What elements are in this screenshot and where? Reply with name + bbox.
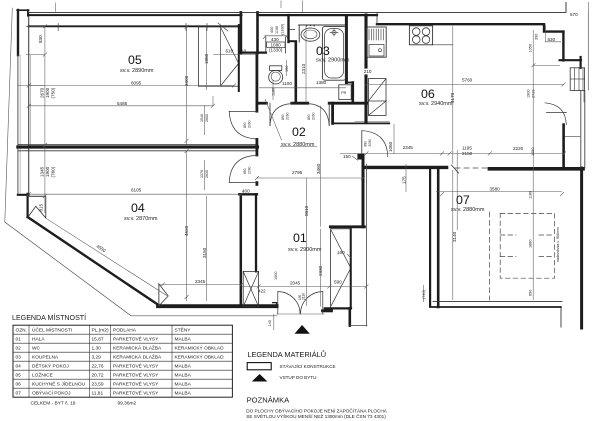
- opening lintel dashes: [455, 167, 488, 169]
- svg-text:2090: 2090: [248, 166, 252, 174]
- svg-text:05: 05: [16, 373, 22, 379]
- dim vertical x206: [204, 27, 206, 301]
- svg-text:06: 06: [16, 382, 22, 388]
- svg-text:07: 07: [456, 193, 470, 207]
- svg-text:(740): (740): [422, 289, 426, 299]
- balcony door leaf+arc: [547, 111, 567, 113]
- svg-text:1100: 1100: [275, 26, 279, 34]
- entrance triangle: [295, 325, 310, 334]
- svg-text:5810: 5810: [304, 205, 309, 216]
- svg-text:1195: 1195: [462, 146, 472, 151]
- hall west wall segments with door gaps: [255, 53, 258, 111]
- dim horizontal entry y287: [159, 285, 366, 306]
- hall/kitchen lintel: [333, 122, 390, 124]
- left bottom corner jog: [18, 194, 29, 217]
- svg-text:(1330): (1330): [269, 48, 283, 53]
- svg-text:STÁVAJÍCÍ KONSTRUKCE: STÁVAJÍCÍ KONSTRUKCE: [280, 363, 336, 369]
- bottom wall left of door: [273, 303, 277, 306]
- entry door step lines: [350, 325, 367, 327]
- svg-text:1370: 1370: [200, 170, 204, 178]
- svg-text:5485: 5485: [117, 101, 128, 106]
- right outer thin line top: [587, 11, 589, 90]
- svg-text:2150: 2150: [462, 151, 473, 156]
- svg-text:04: 04: [16, 364, 22, 370]
- kitchen door leaf+arc: [361, 131, 363, 157]
- svg-text:01: 01: [16, 337, 22, 343]
- svg-text:2345: 2345: [403, 145, 414, 150]
- svg-text:410: 410: [239, 49, 247, 54]
- svg-text:1180: 1180: [272, 88, 276, 96]
- svg-text:ÚČEL MÍSTNOSTI: ÚČEL MÍSTNOSTI: [32, 327, 72, 334]
- svg-text:1000: 1000: [274, 272, 278, 280]
- svg-text:590: 590: [334, 280, 342, 285]
- svg-text:01: 01: [293, 231, 307, 245]
- hall south jog wall: [239, 193, 257, 195]
- svg-text:175: 175: [401, 176, 406, 184]
- svg-text:160: 160: [337, 250, 345, 255]
- svg-text:nadezdívka v. 900mm: nadezdívka v. 900mm: [556, 227, 560, 262]
- shaft box with X: [243, 271, 258, 306]
- svg-text:890: 890: [307, 114, 311, 120]
- bathroom door: [328, 103, 330, 125]
- wall kitchen/room01 horizontal: [330, 225, 364, 228]
- wall hall/entry west: [240, 194, 243, 306]
- WC west niche vertical: [266, 37, 286, 53]
- top wall outer face room 05: [29, 14, 242, 16]
- left outer wall upper: [17, 10, 19, 55]
- svg-text:1050: 1050: [531, 148, 535, 156]
- svg-text:690: 690: [529, 290, 533, 296]
- dim horizontal 6105: [29, 193, 242, 195]
- svg-text:1180: 1180: [529, 191, 533, 199]
- bathroom west wall: [294, 42, 297, 103]
- svg-text:OBÝVACÍ POKOJ: OBÝVACÍ POKOJ: [32, 390, 71, 397]
- kitchen stove: [409, 26, 432, 45]
- svg-text:PARKETOVÉ VLYSY: PARKETOVÉ VLYSY: [113, 372, 159, 379]
- svg-text:2795: 2795: [292, 170, 303, 175]
- svg-text:2090: 2090: [312, 112, 316, 120]
- WC window box: [267, 42, 285, 47]
- svg-text:1880: 1880: [529, 240, 533, 248]
- svg-text:sv.v. 2940mm: sv.v. 2940mm: [419, 101, 453, 107]
- svg-text:140: 140: [268, 320, 272, 326]
- svg-text:422: 422: [258, 289, 266, 294]
- svg-text:830: 830: [38, 35, 43, 43]
- svg-text:150: 150: [343, 154, 351, 159]
- svg-text:06: 06: [421, 87, 435, 101]
- svg-text:07: 07: [16, 391, 22, 397]
- window ticks on top wall: [58, 24, 207, 31]
- WC shaft window line: [290, 29, 295, 31]
- svg-text:VSTUP DO BYTU: VSTUP DO BYTU: [280, 375, 317, 380]
- svg-text:(760): (760): [50, 166, 55, 177]
- dim verticals room01: [306, 106, 320, 307]
- svg-text:390: 390: [535, 34, 539, 40]
- kitchen NE corner walls: [562, 32, 564, 61]
- svg-text:3150: 3150: [202, 247, 207, 258]
- svg-text:4520: 4520: [184, 225, 189, 236]
- washbasin: [301, 28, 320, 41]
- svg-text:2310: 2310: [301, 63, 306, 74]
- svg-text:sv.v. 2870mm: sv.v. 2870mm: [124, 216, 158, 222]
- dim y194 right: [436, 150, 562, 230]
- door to room 04: [229, 181, 257, 183]
- niche bottom: [240, 51, 266, 53]
- svg-text:04: 04: [131, 201, 145, 215]
- svg-text:POZNÁMKA: POZNÁMKA: [247, 396, 291, 405]
- WC bottom / hall top wall with doors: [257, 102, 267, 105]
- kitchen west wall lower: [362, 157, 365, 227]
- svg-text:23,59: 23,59: [92, 382, 104, 388]
- dim ticks slashes: [27, 24, 566, 299]
- dim horizontal 6095: [29, 84, 234, 86]
- kitchen fridge unit: [367, 27, 386, 57]
- bathroom east wall: [345, 16, 348, 83]
- diagonal dim 4550: [46, 218, 167, 295]
- svg-text:3,29: 3,29: [92, 355, 102, 361]
- toilet: [270, 66, 282, 71]
- dim horizontal 5485: [29, 55, 258, 106]
- svg-text:20,72: 20,72: [92, 373, 104, 379]
- svg-text:sv.v. 2890mm: sv.v. 2890mm: [120, 68, 154, 74]
- svg-text:DO PLOCHY OBÝVACÍHO POKOJE NEN: DO PLOCHY OBÝVACÍHO POKOJE NENÍ ZAPOČÍTÁ…: [246, 408, 388, 414]
- svg-text:5760: 5760: [462, 78, 473, 83]
- top wall inner face room 05: [29, 25, 241, 27]
- svg-text:KERAMICKÝ OBKLAD: KERAMICKÝ OBKLAD: [175, 345, 225, 352]
- svg-text:MALBA: MALBA: [175, 391, 192, 397]
- corner notch vertical: [27, 10, 29, 16]
- svg-text:1,30: 1,30: [92, 346, 102, 352]
- svg-text:1060: 1060: [388, 141, 393, 152]
- svg-text:PARKETOVÉ VLYSY: PARKETOVÉ VLYSY: [113, 363, 159, 370]
- svg-text:03: 03: [316, 44, 330, 58]
- diagonal wall room04: [28, 217, 159, 305]
- entrance double door arcs: [278, 292, 300, 314]
- svg-text:1880: 1880: [204, 53, 209, 64]
- room 07 east wall: [580, 168, 583, 328]
- svg-text:MALBA: MALBA: [175, 364, 192, 370]
- svg-text:sv.v. 2900mm: sv.v. 2900mm: [316, 58, 350, 64]
- svg-text:2600: 2600: [205, 114, 209, 122]
- kitchen east wall: [562, 125, 565, 168]
- svg-text:2345: 2345: [195, 279, 206, 284]
- room 07 bottom: [433, 300, 562, 302]
- svg-text:1050: 1050: [529, 44, 533, 52]
- svg-text:1380: 1380: [316, 80, 327, 85]
- svg-text:6095: 6095: [131, 80, 142, 85]
- svg-text:sv.v. 2880mm: sv.v. 2880mm: [281, 142, 315, 148]
- svg-text:190: 190: [285, 66, 289, 72]
- svg-text:sv.v. 2880mm: sv.v. 2880mm: [451, 207, 485, 213]
- outer diagonal lot line bottom-left: [5, 222, 277, 316]
- svg-text:570: 570: [570, 12, 578, 17]
- legend triangle symbol: [252, 374, 268, 382]
- top ticks: [55, 1, 588, 13]
- room labels: [120, 44, 485, 253]
- diagonal top opening triangle: [28, 197, 46, 219]
- svg-text:(1330): (1330): [281, 23, 285, 35]
- svg-text:430: 430: [271, 37, 279, 42]
- svg-text:890: 890: [243, 122, 247, 128]
- svg-text:890: 890: [243, 168, 247, 174]
- kitchen west door stub: [357, 154, 364, 160]
- svg-text:2090: 2090: [248, 120, 252, 128]
- svg-text:610: 610: [226, 49, 234, 54]
- room01 east thin wall: [365, 164, 367, 326]
- svg-text:400: 400: [270, 27, 274, 33]
- svg-text:1540: 1540: [200, 114, 204, 122]
- svg-text:2330: 2330: [318, 265, 323, 276]
- niche wall verticals (room05 / WC): [240, 12, 243, 53]
- door to room 05: [229, 110, 257, 112]
- legend rect symbol: [247, 363, 271, 370]
- svg-text:PR: PR: [341, 91, 346, 95]
- white gap for 210: [363, 69, 374, 75]
- svg-text:PODLAHA: PODLAHA: [113, 328, 137, 334]
- room05 closet: [198, 27, 239, 86]
- diagonal bottom opening triangle: [159, 284, 168, 306]
- svg-text:890: 890: [364, 141, 368, 147]
- svg-text:3140: 3140: [452, 231, 457, 242]
- svg-text:2110: 2110: [302, 293, 306, 300]
- svg-text:2045: 2045: [290, 281, 301, 286]
- PR box: [339, 85, 351, 100]
- svg-text:2220: 2220: [513, 146, 524, 151]
- svg-text:(750): (750): [50, 87, 55, 98]
- wall below closet: [323, 309, 332, 312]
- floor slab wall 05/04: [18, 145, 258, 148]
- svg-text:3460: 3460: [316, 163, 321, 174]
- dim 07 left (740): [423, 285, 425, 302]
- room 07 left wall double: [429, 169, 431, 306]
- svg-text:99,36m2: 99,36m2: [118, 401, 137, 407]
- svg-text:1900: 1900: [526, 90, 530, 98]
- leader hall label: [265, 99, 317, 147]
- corridor stub bottom: [348, 308, 351, 325]
- kitchen south wall (left seg): [366, 166, 447, 169]
- svg-text:03: 03: [16, 355, 22, 361]
- svg-text:3400: 3400: [184, 75, 189, 86]
- svg-text:PARKETOVÉ VLYSY: PARKETOVÉ VLYSY: [113, 390, 159, 397]
- property line left (slanted): [5, 8, 13, 222]
- svg-text:PL.(m2): PL.(m2): [92, 328, 109, 334]
- svg-text:2630: 2630: [205, 170, 209, 178]
- svg-text:CELKEM - BYT č. 19: CELKEM - BYT č. 19: [31, 401, 76, 407]
- svg-text:SE SVĚTLOU VÝŠKOU MENŠÍ NEŽ 13: SE SVĚTLOU VÝŠKOU MENŠÍ NEŽ 1300mm (DLE …: [246, 412, 386, 419]
- svg-text:LEGENDA MATERIÁLŮ: LEGENDA MATERIÁLŮ: [247, 350, 326, 359]
- svg-text:PARKETOVÉ VLYSY: PARKETOVÉ VLYSY: [113, 381, 159, 388]
- svg-text:2710: 2710: [531, 90, 535, 98]
- svg-text:15,87: 15,87: [92, 337, 104, 343]
- window+radiator unit top right: [570, 68, 584, 91]
- svg-text:815: 815: [39, 203, 44, 211]
- svg-text:KERAMICKÝ OBKLAD: KERAMICKÝ OBKLAD: [175, 354, 225, 361]
- svg-text:2670: 2670: [40, 87, 45, 98]
- top wall over WC/bath: [258, 14, 378, 16]
- svg-text:02: 02: [292, 125, 306, 139]
- room07 dashed recess: [489, 212, 491, 300]
- kitchen top inner wall: [377, 24, 563, 31]
- svg-text:02: 02: [16, 346, 22, 352]
- svg-text:22,76: 22,76: [92, 364, 104, 370]
- svg-text:1900: 1900: [45, 166, 50, 177]
- dim vertical x186: [186, 27, 188, 301]
- table room legend: [13, 325, 232, 397]
- svg-text:210: 210: [364, 69, 372, 74]
- svg-text:WC: WC: [32, 346, 41, 352]
- svg-text:KOUPELNA: KOUPELNA: [32, 355, 59, 361]
- svg-text:05: 05: [128, 53, 142, 67]
- svg-text:6105: 6105: [131, 188, 142, 193]
- kitchen south wall (right seg): [489, 167, 583, 171]
- svg-text:2090: 2090: [368, 139, 372, 147]
- svg-text:530: 530: [548, 37, 556, 42]
- arrow 150 kitchen: [347, 156, 358, 258]
- svg-text:sv.v. 2900mm: sv.v. 2900mm: [288, 247, 322, 253]
- dim y153 long: [340, 124, 564, 192]
- svg-text:2090: 2090: [286, 112, 290, 120]
- dim kitchen verticals: [453, 25, 561, 300]
- top-left corner cap: [17, 9, 29, 11]
- svg-text:OZN.: OZN.: [16, 328, 27, 334]
- svg-text:PARKETOVÉ VLYSY: PARKETOVÉ VLYSY: [113, 336, 159, 343]
- svg-text:400: 400: [242, 189, 250, 194]
- svg-text:1900: 1900: [45, 87, 50, 98]
- bathroom top inner: [299, 24, 347, 26]
- svg-text:11,81: 11,81: [92, 391, 104, 397]
- svg-text:MALBA: MALBA: [175, 382, 192, 388]
- kitchen counter edge: [433, 44, 453, 46]
- svg-text:890: 890: [281, 114, 285, 120]
- svg-text:3580: 3580: [490, 186, 501, 191]
- svg-text:1100: 1100: [282, 81, 292, 86]
- svg-text:HALA: HALA: [32, 337, 45, 343]
- WC door: [269, 103, 271, 125]
- kitchen top outer line: [29, 2, 566, 12]
- room01 closet: [331, 229, 352, 309]
- svg-text:MALBA: MALBA: [175, 337, 192, 343]
- kitchen corner cabinet: [368, 79, 386, 116]
- dim kitchen 5760: [366, 83, 563, 85]
- left wall window band (thin lines): [17, 55, 19, 194]
- svg-text:LEGENDA MÍSTNOSTÍ: LEGENDA MÍSTNOSTÍ: [12, 313, 86, 322]
- svg-text:MALBA: MALBA: [175, 373, 192, 379]
- dim line left vertical: [18, 26, 45, 213]
- svg-text:1345: 1345: [40, 166, 45, 177]
- bottom wall room04 + entry: [158, 304, 277, 308]
- kitchen west wall upper: [364, 15, 367, 123]
- entry corridor east wall: [255, 194, 257, 271]
- dim line wc small: [259, 60, 346, 330]
- dim vertical bath 2310: [305, 25, 307, 103]
- dim horizontal hall 2795: [257, 177, 363, 179]
- hall east wall (by bathroom door): [331, 103, 334, 123]
- bathtub: [322, 26, 345, 80]
